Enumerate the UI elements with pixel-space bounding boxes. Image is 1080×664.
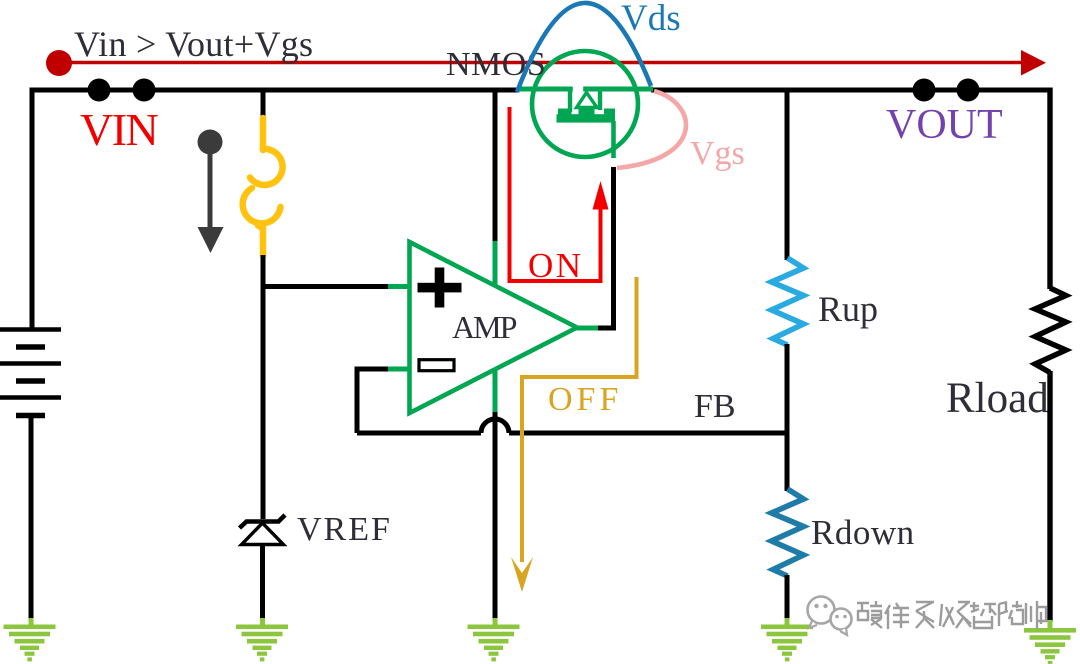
red arrowhead: [1021, 50, 1046, 76]
wire FB to Rdown: [785, 433, 790, 491]
svg-text:VIN: VIN: [80, 104, 159, 155]
ground Rdown: [761, 618, 813, 661]
op-amp U1 triangle: [410, 242, 578, 413]
svg-text:OFF: OFF: [548, 381, 622, 418]
NMOS source lead: [611, 121, 616, 158]
svg-text:Rup: Rup: [818, 289, 878, 329]
svg-text:VREF: VREF: [297, 511, 392, 548]
wire amp output black: [598, 326, 616, 331]
battery V1: [0, 330, 61, 416]
op-amp minus sign: [419, 360, 454, 371]
wire red Vin arrow line: [59, 61, 1023, 65]
node red input dot: [46, 50, 72, 76]
wire gate vertical: [611, 167, 616, 331]
wire Rup to FB: [785, 344, 790, 433]
wire VREF to ground: [260, 544, 265, 621]
wire top rail right segment: [651, 88, 1052, 93]
svg-text:AMP: AMP: [452, 309, 517, 345]
svg-text:Rload: Rload: [946, 375, 1049, 422]
NMOS arrow stub: [582, 108, 591, 115]
svg-text:ON: ON: [528, 246, 584, 285]
wire amp output green stub: [576, 326, 600, 331]
op-amp plus sign: [418, 268, 462, 308]
svg-text:NMOS: NMOS: [446, 46, 546, 83]
ground VREF: [236, 618, 288, 661]
Vgs arc pink: [617, 91, 686, 168]
svg-text:FB: FB: [694, 388, 736, 425]
wire plus input horizontal: [263, 284, 390, 289]
ground amp: [468, 618, 520, 661]
wire amp lower green segment: [493, 367, 498, 414]
ground battery: [4, 618, 56, 661]
wire inductor branch top: [261, 88, 266, 122]
node VIN dot 1: [88, 79, 111, 102]
NMOS gate bar: [557, 109, 616, 123]
wire Rload to ground: [1047, 371, 1052, 622]
NMOS rail gap: [573, 86, 583, 93]
svg-text:Vgs: Vgs: [690, 135, 745, 172]
svg-text:VOUT: VOUT: [886, 102, 1003, 148]
resistor Rdown: [772, 489, 804, 576]
Vds arc blue: [517, 3, 651, 92]
resistor Rup: [772, 258, 804, 345]
wire amp supply green segment: [493, 241, 498, 290]
wire FB horizontal right of hop: [509, 431, 787, 436]
node VOUT dot 2: [957, 79, 980, 102]
wire hop over: [481, 419, 509, 433]
svg-text:Vin > Vout+Vgs: Vin > Vout+Vgs: [74, 24, 313, 64]
watermark text strokes: [857, 601, 1046, 629]
ground Rload: [1024, 620, 1076, 664]
wire Rup branch top: [785, 88, 790, 261]
NMOS body arrow: [577, 93, 598, 108]
OFF arrowhead: [511, 557, 533, 592]
wire left branch down to battery: [30, 88, 35, 329]
ON path red: [510, 107, 601, 281]
NMOS right stub: [598, 89, 602, 110]
wire amp bottom black to ground: [493, 412, 498, 621]
resistor Rload: [1035, 288, 1066, 373]
wire green stub plus input: [388, 284, 411, 289]
node VOUT dot 1: [913, 79, 936, 102]
ON arrowhead: [593, 181, 609, 210]
node VIN dot 2: [133, 79, 156, 102]
svg-text:Vds: Vds: [621, 0, 681, 39]
wire green stub minus input: [388, 367, 411, 372]
wire minus loop vertical: [355, 367, 360, 434]
watermark logo bubbles: [808, 597, 852, 636]
NMOS rail green segment: [517, 87, 653, 92]
wire minus input horizontal: [357, 367, 390, 372]
wire amp supply vertical black top: [493, 88, 498, 244]
wire right branch down: [1047, 88, 1052, 290]
wire Rdown to ground: [785, 575, 790, 621]
current source I arrow: [198, 130, 224, 254]
transistor Q1 NMOS circle: [532, 51, 638, 157]
wire FB horizontal left of hop: [357, 431, 481, 436]
wire top rail left segment: [30, 88, 519, 93]
NMOS drain stub: [568, 89, 572, 112]
inductor L1: [243, 118, 283, 256]
wire battery to ground: [29, 415, 34, 621]
watermark logo eyes: [814, 604, 847, 619]
wire inductor to VREF node: [261, 255, 266, 519]
svg-text:Rdown: Rdown: [811, 513, 915, 552]
zener diode VREF: [240, 515, 286, 545]
OFF path gold: [522, 277, 637, 562]
